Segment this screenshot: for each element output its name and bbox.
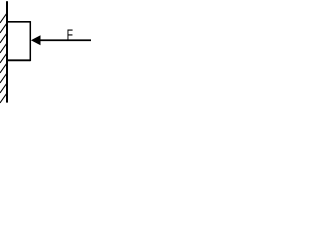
block top edge xyxy=(7,21,30,23)
hatching xyxy=(0,13,7,103)
force arrow head xyxy=(31,35,41,45)
force arrow shaft xyxy=(40,39,92,41)
block bottom edge xyxy=(7,59,30,61)
wall xyxy=(6,1,8,102)
label F xyxy=(67,27,74,43)
svg-text:F: F xyxy=(67,27,74,43)
block right edge xyxy=(29,21,31,61)
